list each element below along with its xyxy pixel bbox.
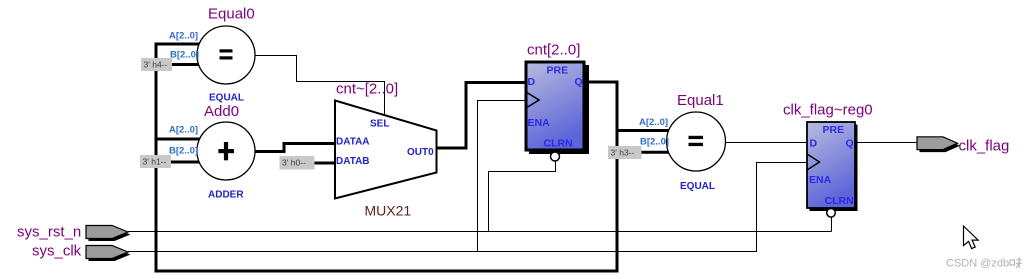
svg-text:PRE: PRE (547, 65, 569, 77)
svg-text:CLRN: CLRN (825, 195, 854, 207)
svg-text:cnt~[2..0]: cnt~[2..0] (336, 81, 398, 98)
svg-text:Add0: Add0 (204, 103, 239, 120)
svg-text:cnt[2..0]: cnt[2..0] (527, 42, 580, 59)
svg-text:Q: Q (575, 76, 583, 88)
svg-text:CSDN @zdb: CSDN @zdb (946, 258, 1009, 270)
svg-text:A[2..0]: A[2..0] (639, 117, 668, 128)
svg-text:A[2..0]: A[2..0] (169, 125, 198, 136)
svg-text:clk_flag: clk_flag (959, 138, 1010, 155)
svg-text:B[2..0]: B[2..0] (640, 137, 669, 148)
svg-text:MUX21: MUX21 (365, 203, 412, 219)
svg-text:DATAB: DATAB (336, 156, 370, 167)
svg-text:D: D (810, 138, 818, 150)
svg-text:3' h4--: 3' h4-- (144, 60, 168, 70)
svg-text:ENA: ENA (809, 174, 832, 186)
svg-text:B[2..0]: B[2..0] (170, 50, 199, 61)
svg-text:EQUAL: EQUAL (680, 181, 715, 192)
svg-text:DATAA: DATAA (336, 136, 370, 147)
svg-text:ADDER: ADDER (208, 190, 244, 201)
svg-text:EQUAL: EQUAL (209, 93, 244, 104)
svg-text:PRE: PRE (823, 124, 845, 136)
svg-text:sys_rst_n: sys_rst_n (17, 224, 81, 241)
svg-text:B[2..0]: B[2..0] (169, 146, 198, 157)
svg-text:sys_clk: sys_clk (32, 243, 82, 260)
svg-text:SEL: SEL (370, 119, 389, 130)
svg-text:OUT0: OUT0 (407, 147, 434, 158)
svg-text:D: D (528, 76, 536, 88)
svg-text:ENA: ENA (528, 117, 551, 129)
svg-text:CLRN: CLRN (544, 138, 573, 150)
svg-text:Q: Q (846, 138, 854, 150)
svg-text:A[2..0]: A[2..0] (169, 31, 198, 42)
svg-text:3' h1--: 3' h1-- (143, 157, 167, 167)
svg-text:Equal1: Equal1 (677, 92, 724, 109)
svg-text:Equal0: Equal0 (208, 6, 255, 23)
svg-text:3' h0--: 3' h0-- (282, 158, 306, 168)
svg-text:3' h3--: 3' h3-- (611, 148, 635, 158)
svg-text:clk_flag~reg0: clk_flag~reg0 (783, 102, 873, 119)
